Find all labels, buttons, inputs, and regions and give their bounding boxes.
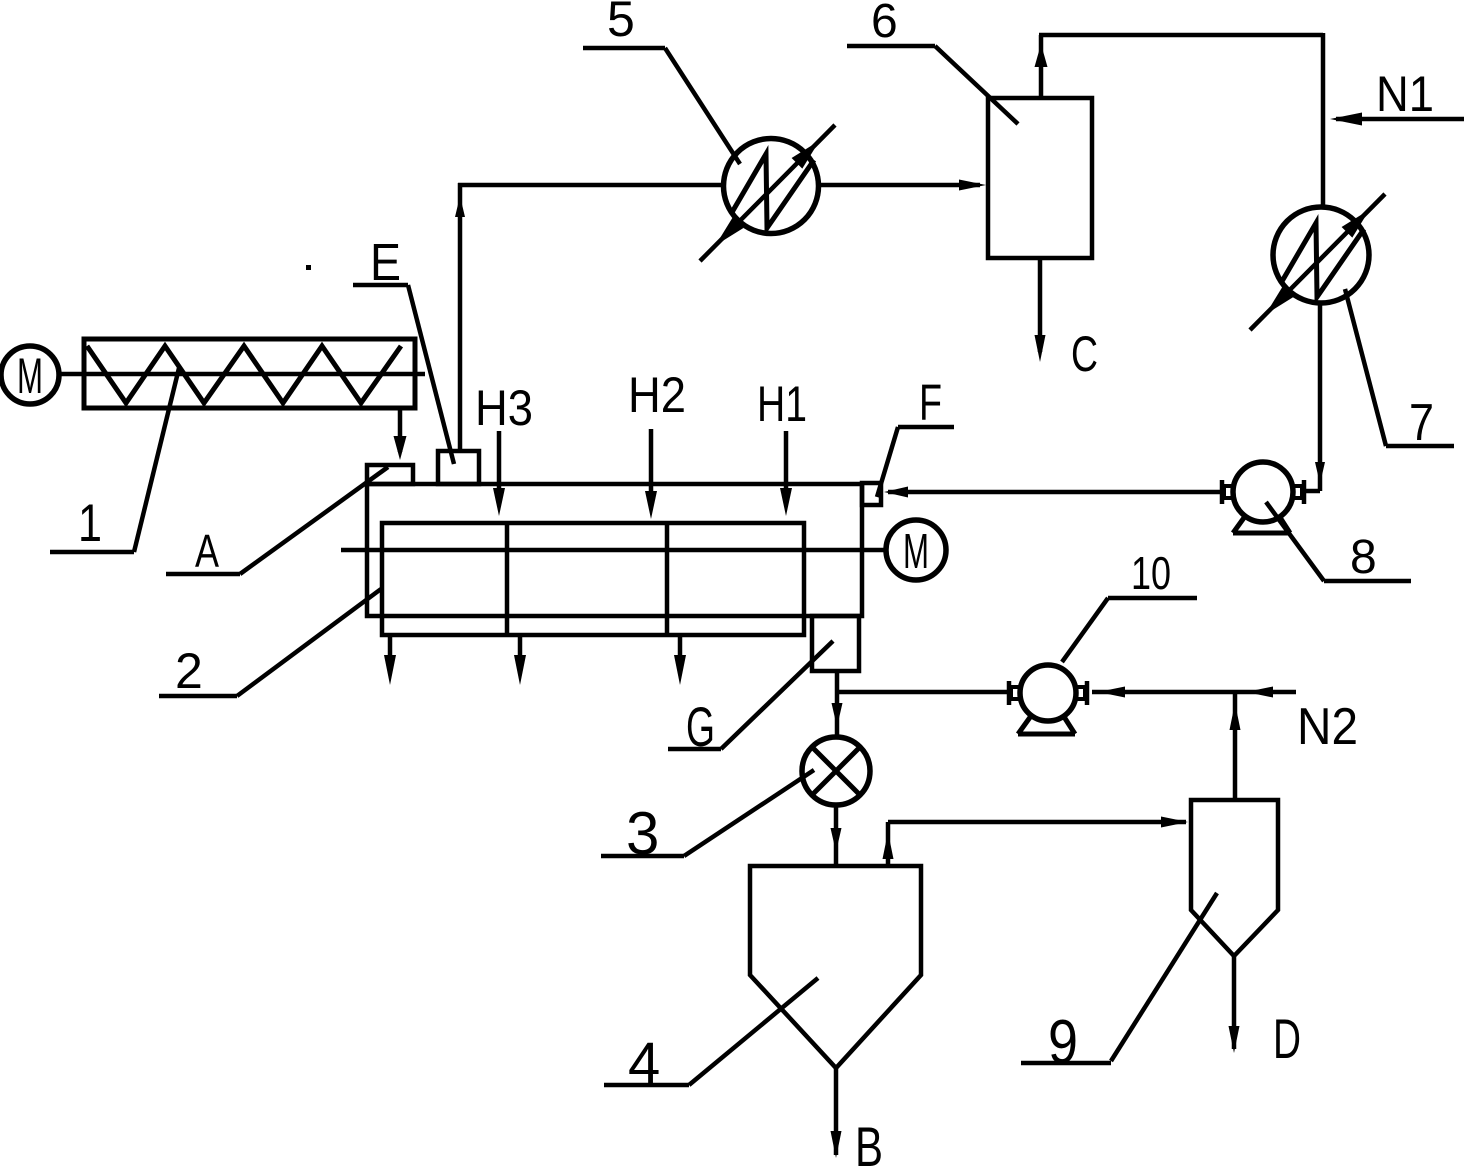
pump 10	[1009, 665, 1087, 734]
svg-text:C: C	[1071, 326, 1098, 382]
svg-text:6: 6	[871, 0, 898, 48]
label leader A	[166, 467, 388, 577]
svg-text:H2: H2	[628, 367, 686, 423]
wire down to heat exchanger 7	[1321, 33, 1326, 207]
stream N2 line into pump 10	[1092, 687, 1296, 698]
svg-text:9: 9	[1048, 1008, 1078, 1077]
svg-text:10: 10	[1131, 547, 1171, 599]
svg-text:8: 8	[1350, 531, 1377, 584]
condensate drain arrow 1 under dryer	[384, 636, 396, 685]
label leader 2	[159, 589, 381, 699]
wire HX7 down to pump 8	[1305, 303, 1325, 491]
wire valve 3 to vessel 4	[831, 805, 842, 864]
wire horizontal to heat exchanger 5	[458, 183, 724, 188]
svg-text:M: M	[17, 348, 43, 404]
label leader F	[877, 374, 954, 497]
heat exchanger 5	[700, 125, 835, 261]
label leader E	[353, 234, 454, 464]
separator vessel 6	[988, 98, 1092, 258]
svg-text:A: A	[195, 525, 219, 577]
condensate drain arrow 2 under dryer	[514, 636, 526, 685]
label leader 4	[604, 978, 818, 1096]
wire junction G to pump 10	[837, 690, 1008, 695]
label leader G	[668, 641, 833, 758]
heater arrow H3	[475, 380, 533, 516]
discharge box G	[812, 616, 859, 671]
svg-text:H1: H1	[757, 376, 807, 432]
motor M of dryer 2	[886, 520, 946, 580]
wire discharge from G down to valve 3	[832, 671, 843, 737]
label leader 3	[601, 770, 814, 867]
svg-text:H3: H3	[475, 380, 533, 436]
motor M of screw conveyor 1	[1, 346, 59, 404]
feed inlet box A	[367, 465, 413, 484]
wire cyclone 9 top to N2 line	[1230, 692, 1241, 800]
wire vessel 4 vent riser	[883, 822, 894, 866]
drum section divider 1	[505, 523, 510, 635]
svg-text:N1: N1	[1376, 66, 1434, 122]
wire top recycle line	[1039, 33, 1323, 38]
svg-text:5: 5	[607, 0, 635, 47]
label leader 1	[50, 368, 179, 553]
dryer drum 2 shell	[382, 523, 804, 635]
wire feed drop from conveyor to dryer inlet A	[394, 408, 407, 460]
label leader 7	[1345, 289, 1454, 452]
label leader 6	[847, 0, 1018, 124]
svg-text:F: F	[919, 374, 942, 431]
heater arrow H1	[757, 376, 807, 516]
dryer 2 outer housing	[367, 484, 862, 616]
svg-text:1: 1	[78, 494, 102, 553]
drum section divider 2	[665, 523, 670, 635]
wire pump 8 to dryer inlet F	[884, 487, 1222, 498]
node stray dot	[306, 265, 311, 270]
wire vessel 4 bottom outlet B	[831, 1068, 842, 1158]
inlet box E	[438, 451, 479, 484]
condensate drain arrow 3 under dryer	[674, 636, 686, 685]
rotary valve 3	[802, 737, 870, 805]
svg-text:M: M	[903, 525, 929, 579]
label C	[1071, 326, 1098, 382]
label N2	[1297, 698, 1358, 756]
stream N1 inlet arrow	[1330, 66, 1464, 126]
wire cyclone 9 bottom outlet D	[1229, 956, 1240, 1053]
wire HX5 to separator 6 with arrow	[818, 180, 986, 191]
label leader 9	[1021, 893, 1217, 1077]
cyclone 9	[1191, 800, 1278, 956]
screw flight zigzag of conveyor 1	[87, 346, 401, 403]
label D	[1273, 1007, 1301, 1070]
label leader 8	[1266, 502, 1411, 584]
wire motor shaft to conveyor	[59, 372, 425, 377]
svg-text:B: B	[855, 1115, 883, 1171]
label leader 10	[1062, 547, 1197, 662]
label leader 5	[583, 0, 740, 164]
collection vessel 4	[750, 866, 921, 1068]
svg-text:D: D	[1273, 1007, 1301, 1070]
heat exchanger 7	[1250, 194, 1385, 330]
wire vent line to cyclone 9	[888, 817, 1188, 828]
drum axis shaft	[341, 548, 888, 553]
screw conveyor 1 housing	[84, 339, 415, 408]
label B	[855, 1115, 883, 1171]
wire riser from box E up	[455, 183, 465, 453]
wire separator 6 overhead riser	[1035, 35, 1048, 98]
heater arrow H2	[628, 367, 686, 519]
svg-text:7: 7	[1409, 394, 1434, 452]
svg-text:N2: N2	[1297, 698, 1358, 756]
gas return notch F	[862, 483, 881, 505]
svg-text:2: 2	[175, 643, 203, 699]
pump 8	[1222, 462, 1304, 533]
wire separator 6 bottom outlet C	[1035, 258, 1046, 362]
